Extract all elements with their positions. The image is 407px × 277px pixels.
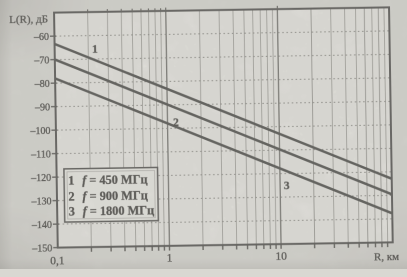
svg-text:–140: –140 — [31, 220, 52, 231]
svg-text:–110: –110 — [30, 149, 51, 160]
svg-text:f = 450 МГц: f = 450 МГц — [82, 172, 148, 187]
svg-text:f = 900 МГц: f = 900 МГц — [82, 188, 148, 203]
svg-text:L(R), дБ: L(R), дБ — [9, 13, 48, 26]
svg-text:–80: –80 — [34, 79, 50, 90]
curve 1: f = 450 MHz — [55, 39, 392, 184]
minor vertical gridlines — [88, 7, 388, 247]
plot area background — [54, 7, 393, 247]
x axis labels — [50, 251, 287, 268]
svg-text:10: 10 — [275, 251, 287, 263]
major decade vertical gridlines — [166, 9, 281, 246]
left axis ticks — [50, 36, 59, 248]
svg-text:2: 2 — [68, 189, 74, 203]
svg-text:–90: –90 — [34, 102, 50, 113]
svg-text:3: 3 — [284, 180, 290, 192]
svg-text:2: 2 — [173, 117, 179, 129]
svg-text:–120: –120 — [30, 173, 51, 184]
plot border — [54, 7, 393, 247]
top axis tick stubs — [88, 6, 278, 12]
svg-text:–130: –130 — [30, 196, 51, 207]
horizontal dotted gridlines every 10 dB — [55, 31, 391, 224]
curve 2: f = 900 MHz — [55, 54, 392, 199]
legend box — [64, 167, 158, 222]
svg-text:1: 1 — [68, 173, 74, 187]
svg-text:R, км: R, км — [374, 251, 399, 263]
svg-text:–70: –70 — [33, 55, 49, 66]
svg-text:1: 1 — [167, 253, 173, 265]
svg-text:3: 3 — [69, 204, 75, 218]
bottom axis ticks — [91, 242, 387, 251]
svg-text:f = 1800 МГц: f = 1800 МГц — [83, 203, 155, 218]
svg-text:0,1: 0,1 — [50, 255, 65, 267]
svg-text:–100: –100 — [29, 126, 50, 137]
y axis labels — [28, 32, 52, 255]
curve 3: f = 1800 MHz — [55, 73, 392, 218]
svg-text:1: 1 — [92, 44, 98, 56]
svg-text:–60: –60 — [33, 32, 49, 43]
svg-text:–150: –150 — [31, 243, 52, 254]
